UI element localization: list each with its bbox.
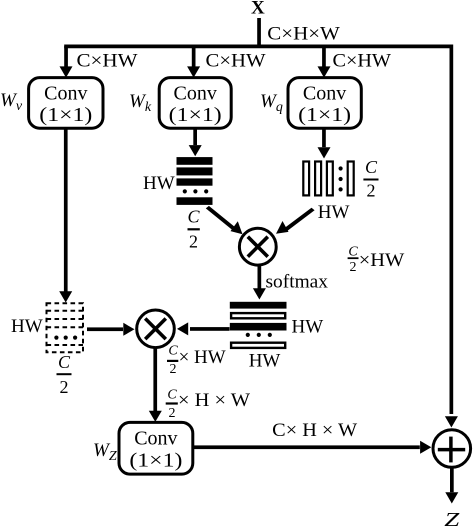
svg-text:Conv: Conv: [174, 83, 217, 105]
svg-text:(1×1): (1×1): [129, 450, 182, 472]
label C/2 fraction (query bars): [363, 157, 378, 201]
node X (input): [251, 0, 265, 19]
conv box Wq: [288, 78, 361, 129]
conv box Wz: [119, 422, 193, 474]
label HW (attention bottom): [249, 350, 281, 371]
svg-text:HW: HW: [292, 317, 324, 338]
arrow into conv Wq: [318, 46, 331, 78]
arrow dashed map to multiplier M2: [87, 323, 135, 336]
multiplier node M2 (circled X): [137, 310, 175, 348]
svg-text:HW: HW: [143, 173, 175, 194]
svg-text:× HW: × HW: [179, 347, 226, 368]
label HW (key stack): [143, 173, 175, 194]
svg-text:HW: HW: [11, 316, 43, 337]
attention map: stack of bars (solid/outline): [230, 302, 287, 348]
svg-text:2: 2: [169, 406, 176, 421]
label HW (query bars): [318, 202, 350, 223]
node Z (output): [444, 509, 460, 528]
svg-text:C: C: [58, 352, 71, 372]
arrow into conv Wk: [187, 46, 200, 78]
label HW (dashed map): [11, 316, 43, 337]
label Wz: [93, 440, 117, 464]
multiplier node M1 (circled X): [239, 228, 276, 265]
svg-text:Conv: Conv: [303, 83, 346, 105]
svg-text:× H × W: × H × W: [178, 390, 250, 411]
svg-text:X: X: [251, 0, 265, 19]
adder node (circled plus): [433, 430, 471, 468]
query feature map: outlined vertical bars: [303, 162, 353, 196]
label c/2 × H × W (M2 down size): [166, 388, 250, 422]
svg-text:Z: Z: [444, 509, 460, 528]
label Wq: [260, 91, 283, 115]
top bus wire with right rail down to adder: [64, 45, 453, 415]
arrow adder down to output Z: [445, 467, 458, 503]
label C×H×W (top): [267, 24, 340, 45]
arrow key stack to multiplier M1: [206, 206, 243, 234]
svg-text:(1×1): (1×1): [169, 104, 222, 126]
dots inside dashed map: [54, 336, 77, 340]
svg-text:C×HW: C×HW: [206, 50, 266, 71]
arrow into conv Wv: [60, 46, 73, 78]
label C/2 fraction (key stack): [187, 207, 200, 252]
dashed value feature map: [47, 303, 84, 352]
svg-text:C: C: [168, 344, 178, 359]
label Wv: [0, 90, 23, 114]
svg-text:(1×1): (1×1): [298, 104, 351, 126]
svg-text:C×HW: C×HW: [333, 50, 392, 71]
label C×HW (middle branch): [206, 50, 266, 71]
svg-text:C×HW: C×HW: [77, 50, 138, 71]
conv box Wv: [29, 78, 103, 129]
svg-text:C× H × W: C× H × W: [272, 420, 357, 441]
label HW (attention right): [292, 317, 324, 338]
svg-text:C: C: [365, 157, 378, 177]
arrow conv Wk down to key feature bars: [189, 128, 202, 156]
label C×HW (left branch): [77, 50, 138, 71]
label C/2 fraction (dashed map): [57, 352, 72, 397]
svg-text:Conv: Conv: [134, 428, 177, 450]
svg-text:softmax: softmax: [266, 272, 329, 293]
svg-text:×HW: ×HW: [359, 250, 405, 271]
svg-text:C: C: [187, 207, 200, 227]
label C×HW (right branch): [333, 50, 392, 71]
svg-text:Conv: Conv: [44, 83, 87, 105]
key feature map: stack of solid bars: [177, 157, 213, 205]
arrow conv Wz to adder: [193, 441, 431, 454]
arrow query bars to multiplier M1: [276, 208, 315, 234]
svg-text:HW: HW: [249, 350, 281, 371]
arrow M1 down to attention map stack (softmax): [253, 265, 266, 299]
svg-text:2: 2: [60, 377, 69, 397]
arrow attention stack to multiplier M2: [177, 322, 230, 335]
label c/2 × HW (M2 output size): [167, 344, 226, 378]
svg-text:(1×1): (1×1): [39, 104, 92, 126]
label Wk: [129, 91, 152, 115]
svg-text:2: 2: [189, 232, 198, 252]
label softmax: [266, 272, 329, 293]
svg-text:C×H×W: C×H×W: [267, 24, 340, 45]
label C × H × W (residual line): [272, 420, 357, 441]
wire conv Wv down to dashed feature map: [59, 128, 72, 302]
svg-text:2: 2: [367, 181, 376, 201]
svg-text:2: 2: [350, 260, 357, 275]
arrow conv Wq down to query feature bars: [318, 128, 331, 158]
label c/2 × HW (M1 output size): [348, 245, 405, 275]
arrowhead right rail into adder: [445, 416, 458, 427]
svg-text:2: 2: [170, 362, 177, 377]
conv box Wk: [159, 78, 231, 129]
svg-text:C: C: [167, 388, 177, 403]
svg-text:HW: HW: [318, 202, 350, 223]
wire from X down to top bus: [257, 18, 261, 46]
arrow M2 down to conv Wz: [149, 347, 162, 422]
